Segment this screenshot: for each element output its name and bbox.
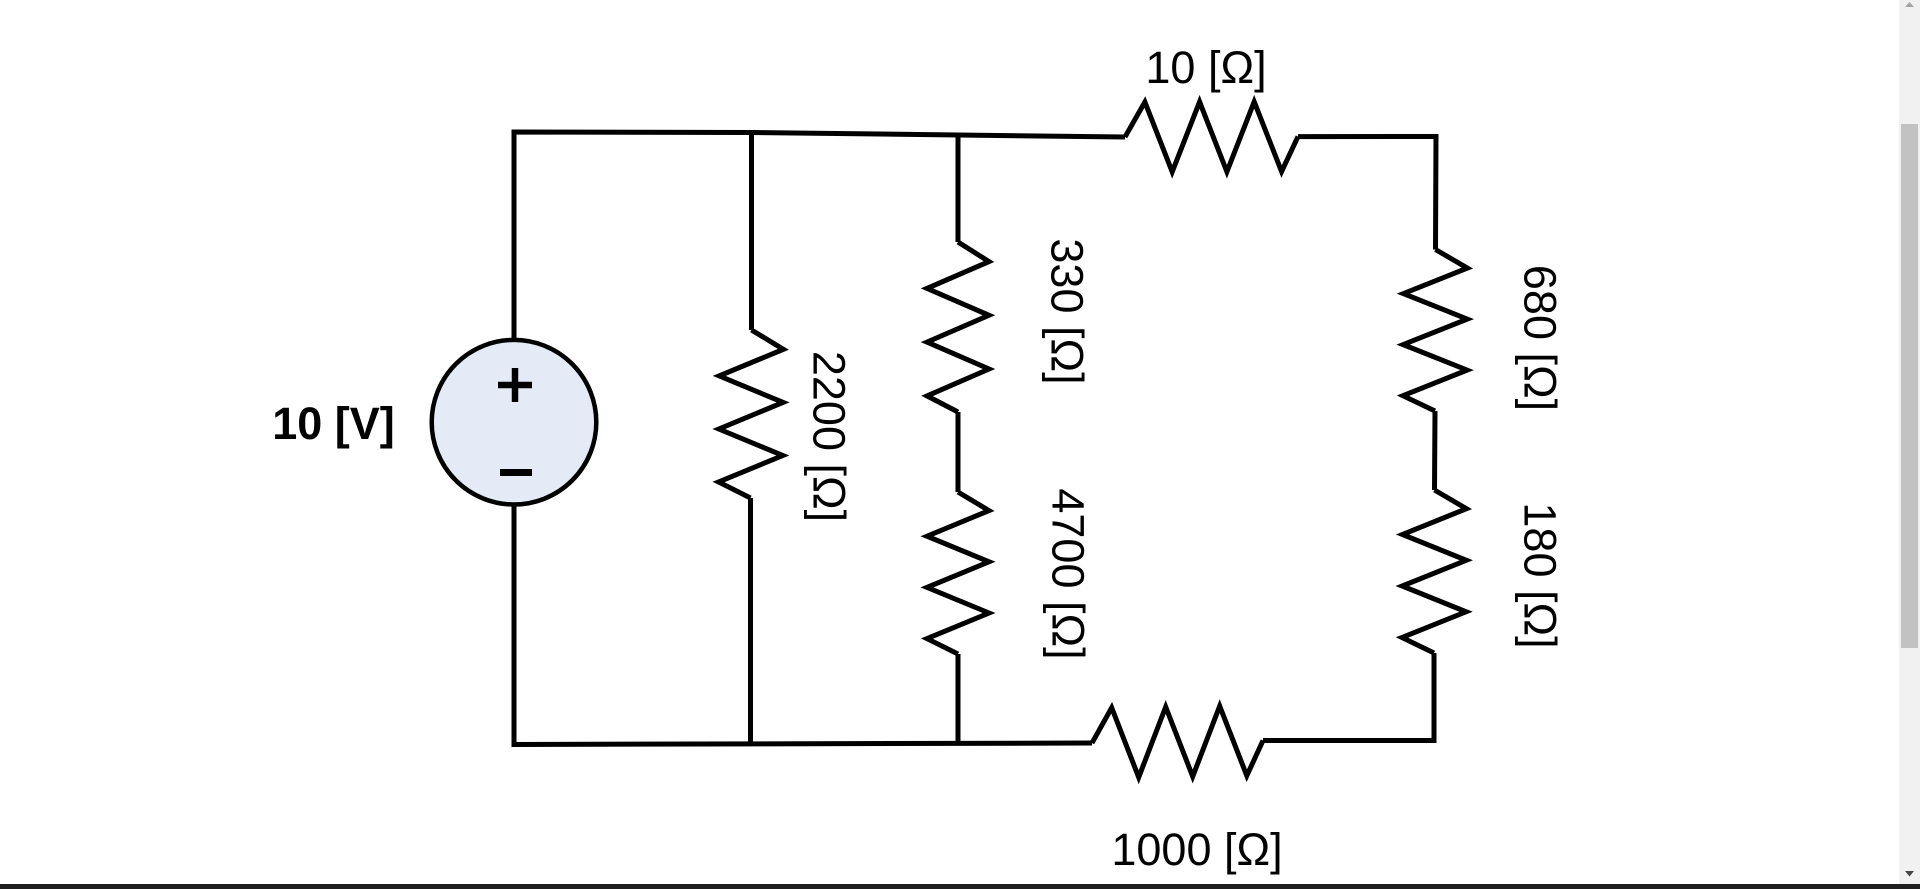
resistor 330 [ohm] (vertical, branch 2 upper) — [927, 242, 989, 412]
scrollbar track — [1899, 0, 1920, 884]
resistor 1000 [ohm] (horizontal, bottom) — [1092, 706, 1263, 777]
svg-text:2200 [Ω]: 2200 [Ω] — [804, 351, 855, 522]
scrollbar up arrow — [1899, 0, 1920, 12]
wire: branch 1 top lead — [749, 133, 754, 331]
wire: branch 2 bottom lead — [956, 654, 961, 744]
wire: branch 2 middle lead — [956, 412, 961, 492]
plus terminal mark — [498, 368, 532, 402]
voltage source V1 10V circle — [432, 340, 597, 505]
resistor 10 [ohm] (horizontal, top) — [1125, 102, 1298, 172]
wire: top-left corner, top rail from source to 10-ohm resistor — [514, 132, 1125, 340]
wire: branch 2 top lead — [956, 135, 961, 242]
svg-text:180 [Ω]: 180 [Ω] — [1515, 502, 1566, 648]
wire: top rail right segment + top-right corner down to 680 — [1298, 137, 1436, 250]
svg-text:10 [V]: 10 [V] — [272, 398, 395, 449]
svg-text:330 [Ω]: 330 [Ω] — [1042, 238, 1093, 384]
svg-text:10 [Ω]: 10 [Ω] — [1145, 42, 1266, 93]
wire: branch 1 bottom lead — [748, 498, 753, 744]
resistor 680 [ohm] (vertical, right) — [1403, 250, 1467, 412]
resistor 4700 [ohm] (vertical, branch 2 lower) — [927, 492, 989, 654]
scrollbar thumb — [1901, 124, 1918, 648]
wire: bottom rail left segment + bottom-left corner up to source — [514, 505, 1092, 745]
resistor 180 [ohm] (vertical, right) — [1402, 490, 1466, 653]
resistor 2200 [ohm] (vertical, branch 1) — [719, 330, 784, 498]
minus terminal mark — [500, 469, 532, 476]
bottom black bar — [0, 884, 1920, 889]
svg-text:4700 [Ω]: 4700 [Ω] — [1043, 488, 1094, 659]
svg-text:680 [Ω]: 680 [Ω] — [1515, 265, 1566, 411]
svg-text:1000 [Ω]: 1000 [Ω] — [1111, 824, 1282, 875]
wire: between 680 and 180 — [1432, 411, 1438, 490]
wire: right side down + bottom-right corner to 1000 — [1263, 653, 1434, 741]
scrollbar down arrow — [1899, 868, 1920, 880]
